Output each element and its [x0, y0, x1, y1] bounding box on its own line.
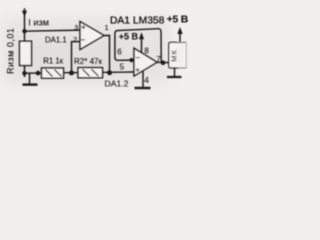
node pin6 entry	[129, 58, 133, 62]
power +5В arrow at pin 8	[139, 32, 144, 53]
ground (DA1.2 pin 4)	[135, 87, 151, 89]
node output junction	[161, 60, 166, 65]
scan shading	[2, 18, 170, 84]
svg-text:+5 В: +5 В	[167, 14, 189, 25]
wire shunt bottom lead	[24, 66, 26, 74]
wire pin 4 down	[142, 71, 144, 88]
svg-text:5: 5	[120, 63, 125, 72]
MK box	[169, 42, 178, 68]
node rail-dot2	[36, 71, 41, 76]
svg-text:R2* 47к: R2* 47к	[74, 57, 102, 66]
R2 power slashes	[83, 69, 99, 76]
svg-text:1: 1	[105, 25, 109, 32]
svg-text:DA1.1: DA1.1	[45, 35, 67, 44]
op-amp DA1.1	[80, 22, 104, 50]
DA1.1 minus sign	[81, 39, 85, 41]
wire feedback loop pin7 to pin6	[115, 29, 163, 63]
wire bottom rail	[25, 72, 135, 73]
wire output to MK	[157, 61, 169, 63]
svg-text:2: 2	[73, 37, 77, 44]
R1 power slashes	[46, 70, 62, 77]
resistor R1	[42, 68, 64, 78]
wire pin3 of DA1.1	[25, 30, 81, 31]
wire DA1.1 output down to rail	[104, 35, 110, 72]
svg-text:Rизм 0,01: Rизм 0,01	[5, 28, 15, 74]
svg-text:+5 В: +5 В	[119, 32, 139, 42]
svg-text:R1 1к: R1 1к	[43, 57, 63, 66]
svg-text:3: 3	[74, 25, 78, 32]
svg-text:6: 6	[117, 47, 122, 56]
ground (MK)	[167, 67, 182, 77]
DA1.2 minus sign	[136, 57, 140, 59]
wire tap to pin 2	[72, 42, 81, 73]
svg-text:4: 4	[144, 76, 149, 85]
DA1.2 plus sign	[136, 68, 140, 72]
resistor Rизм 0,01 (shunt)	[20, 41, 32, 65]
svg-text:8: 8	[144, 46, 148, 55]
svg-text:I изм: I изм	[28, 17, 49, 27]
node between R1 and R2	[69, 70, 74, 75]
svg-text:DA1 LM358: DA1 LM358	[110, 15, 165, 26]
svg-text:МК: МК	[169, 49, 178, 62]
resistor R2	[78, 68, 103, 78]
node A (shunt top junction)	[22, 29, 26, 33]
power +5В arrow (top right, MK supply)	[177, 27, 182, 42]
node rail-shunt	[22, 71, 26, 75]
op-amp DA1.2	[134, 48, 157, 76]
current arrow I изм	[22, 8, 27, 31]
node R2 right / output	[107, 70, 112, 75]
svg-text:DA1.2: DA1.2	[105, 78, 129, 88]
wire shunt top lead	[24, 31, 26, 41]
ground (left)	[23, 73, 38, 84]
DA1.1 plus sign	[81, 25, 85, 29]
